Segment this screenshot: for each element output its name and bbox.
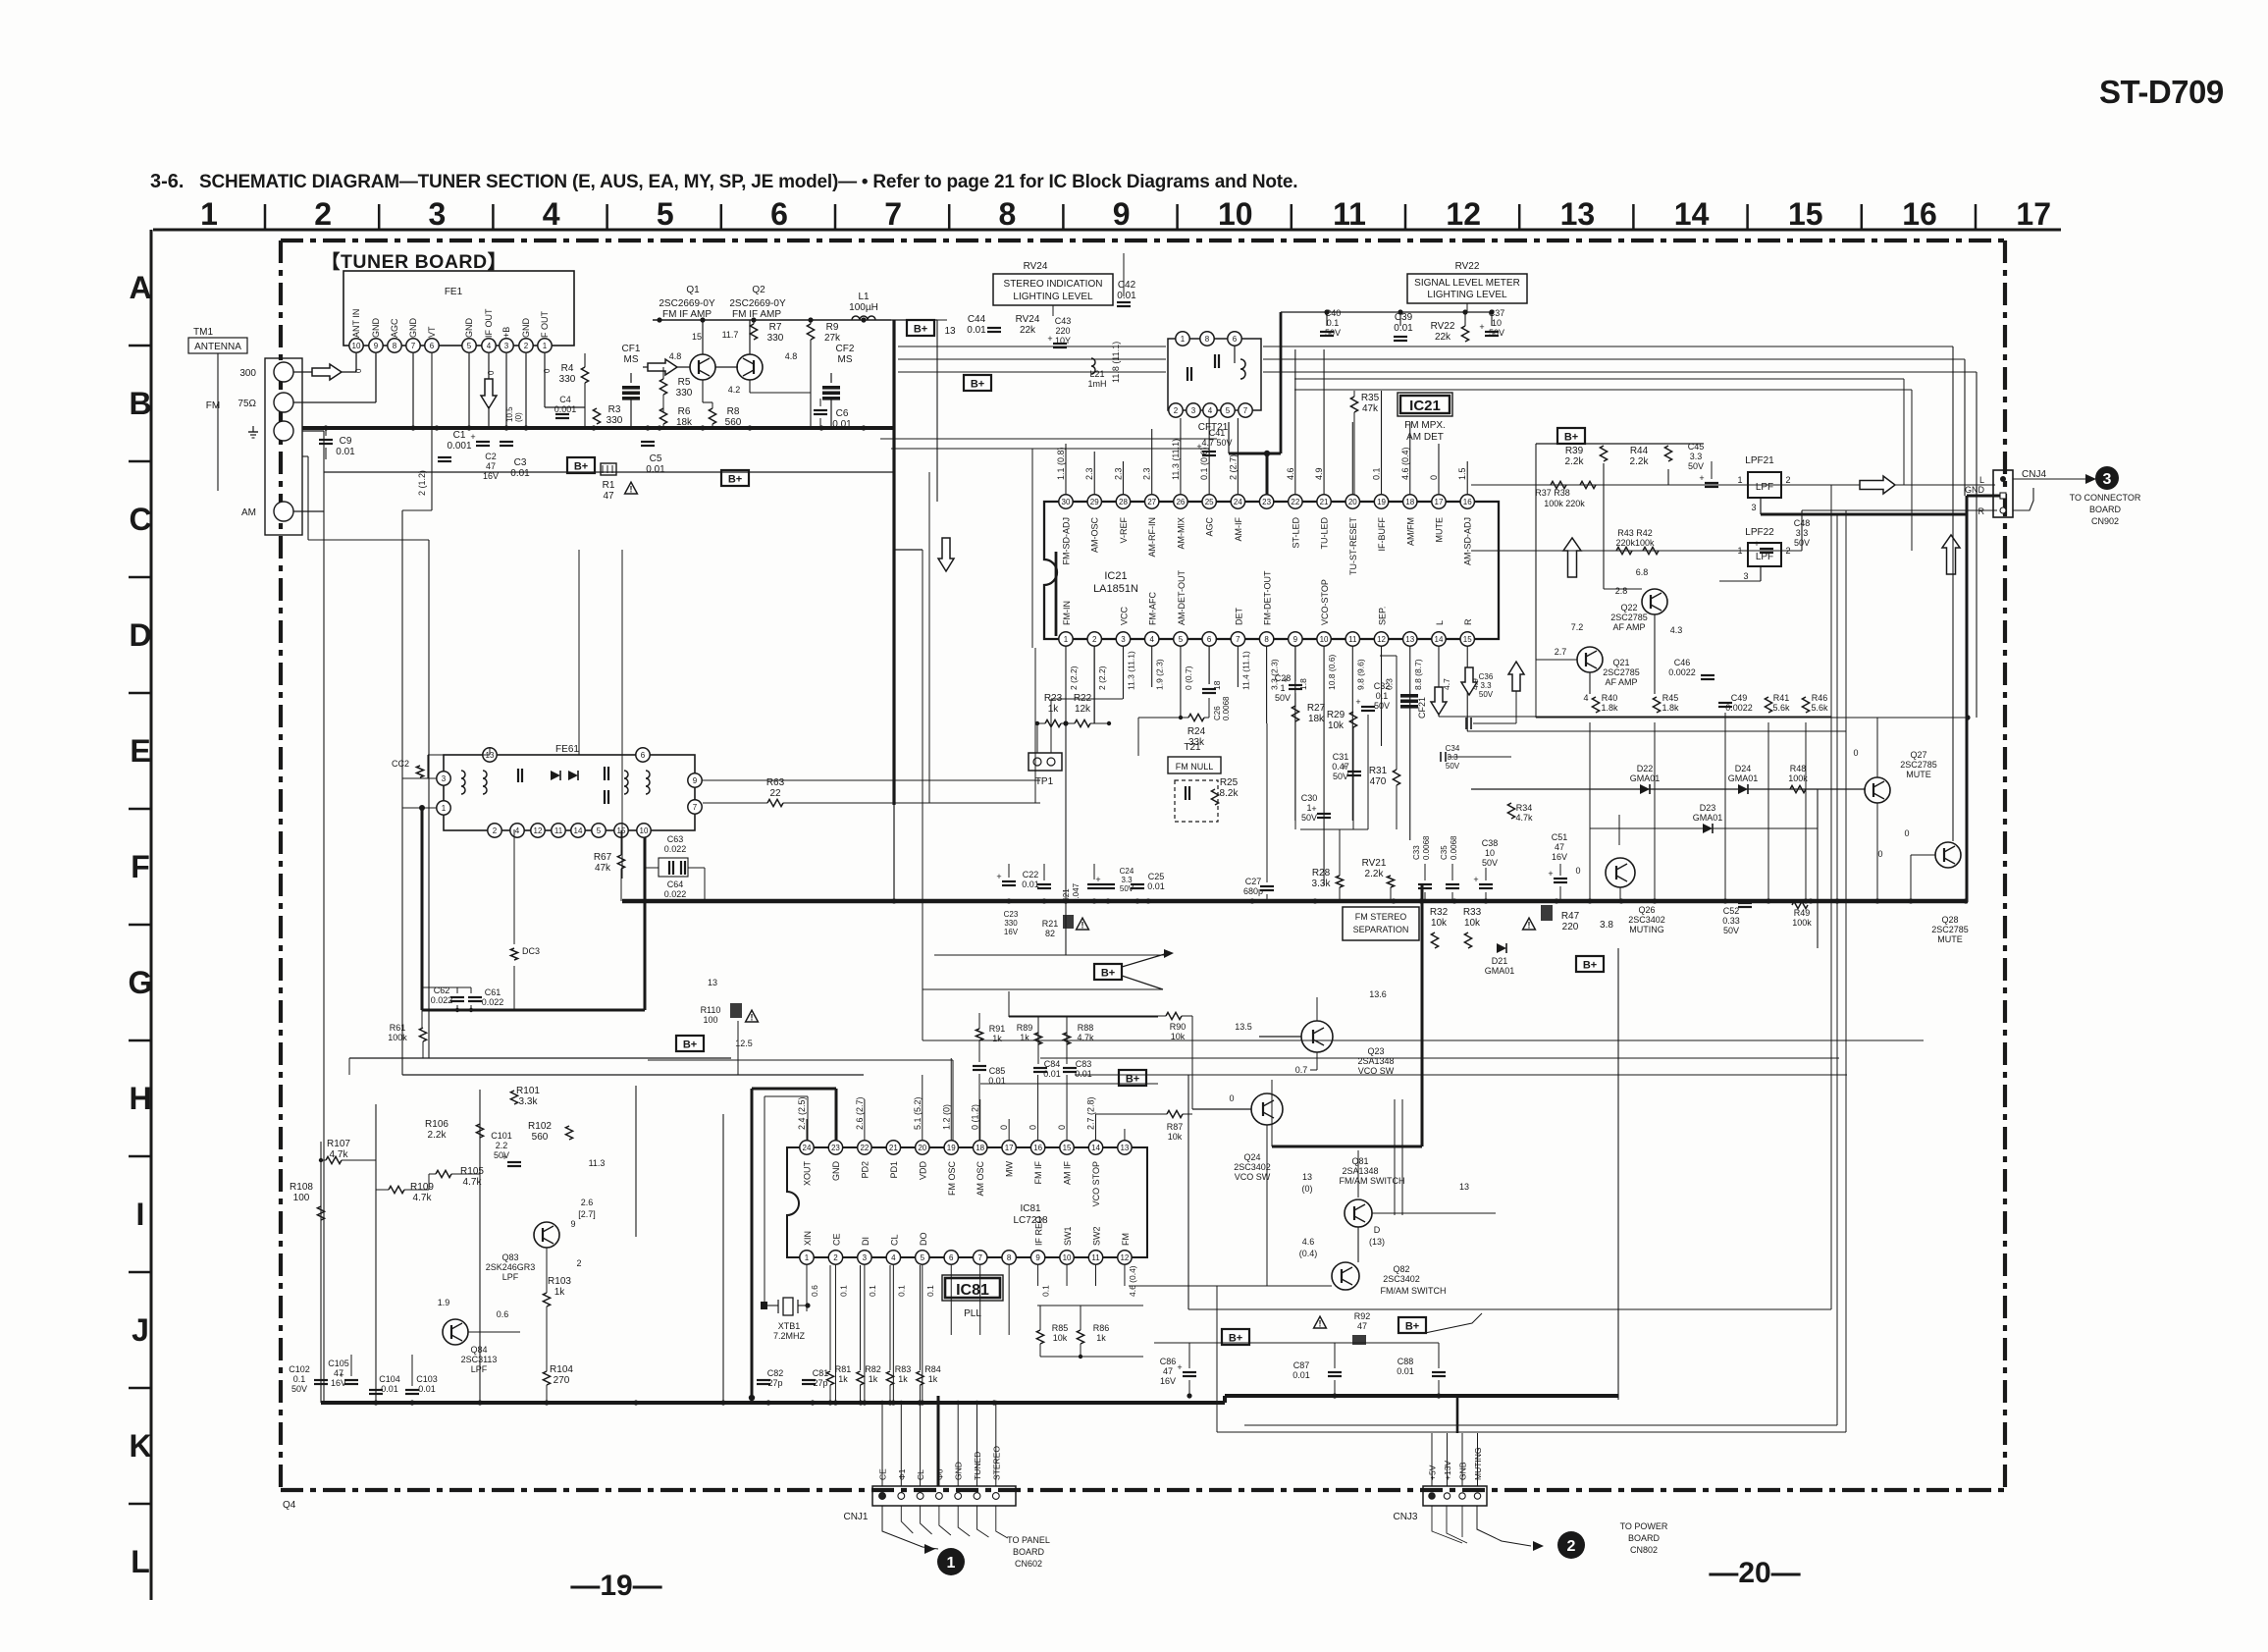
svg-text:4: 4 <box>543 196 560 232</box>
svg-text:D23: D23 <box>1700 803 1716 813</box>
svg-text:1k: 1k <box>1048 704 1060 715</box>
svg-text:8.8 (8.7): 8.8 (8.7) <box>1413 659 1423 690</box>
svg-text:28: 28 <box>1119 498 1128 506</box>
svg-text:R: R <box>1978 506 1985 516</box>
svg-text:6: 6 <box>641 751 646 760</box>
svg-text:TO PANEL: TO PANEL <box>1007 1535 1050 1545</box>
svg-text:82: 82 <box>1045 929 1055 938</box>
svg-text:2SK246GR3: 2SK246GR3 <box>486 1262 536 1272</box>
svg-text:K: K <box>129 1428 151 1464</box>
svg-text:2SC2669-0Y: 2SC2669-0Y <box>659 298 715 309</box>
svg-text:16V: 16V <box>1552 852 1567 862</box>
svg-text:C9: C9 <box>340 436 352 447</box>
svg-text:17: 17 <box>1005 1144 1014 1152</box>
svg-text:+: + <box>470 432 475 442</box>
svg-text:AM-RF-IN: AM-RF-IN <box>1147 517 1157 558</box>
svg-text:2: 2 <box>833 1253 838 1262</box>
svg-text:R9: R9 <box>826 322 839 333</box>
svg-text:AM-MIX: AM-MIX <box>1176 517 1186 550</box>
svg-text:TU-LED: TU-LED <box>1320 517 1330 550</box>
svg-text:G: G <box>129 965 153 1000</box>
svg-text:B+: B+ <box>914 324 927 336</box>
svg-text:25: 25 <box>1205 498 1214 506</box>
svg-text:0.6: 0.6 <box>810 1285 819 1297</box>
svg-text:7.2MHZ: 7.2MHZ <box>773 1331 806 1341</box>
svg-text:2: 2 <box>1092 635 1097 644</box>
svg-text:LPF21: LPF21 <box>1745 455 1774 466</box>
svg-text:T21: T21 <box>1184 742 1201 753</box>
svg-text:1k: 1k <box>869 1374 878 1384</box>
svg-text:0.1: 0.1 <box>868 1285 877 1297</box>
svg-text:R7: R7 <box>769 322 782 333</box>
svg-text:270: 270 <box>554 1375 570 1386</box>
svg-text:27: 27 <box>1147 498 1156 506</box>
svg-text:4.7k: 4.7k <box>413 1193 433 1203</box>
svg-text:R46: R46 <box>1812 693 1828 703</box>
svg-text:+: + <box>1342 762 1346 772</box>
svg-text:R105: R105 <box>460 1166 484 1177</box>
svg-text:3.3: 3.3 <box>1121 876 1133 884</box>
svg-text:17: 17 <box>2016 196 2051 232</box>
svg-text:TU-ST-RESET: TU-ST-RESET <box>1348 517 1358 576</box>
svg-text:RV22: RV22 <box>1455 261 1480 272</box>
svg-text:C31: C31 <box>1333 752 1349 762</box>
svg-text:16: 16 <box>1033 1144 1042 1152</box>
svg-text:100k: 100k <box>1792 918 1812 928</box>
svg-text:Q24: Q24 <box>1243 1152 1260 1162</box>
svg-text:16V: 16V <box>1160 1376 1176 1386</box>
svg-text:10: 10 <box>1218 196 1253 232</box>
svg-text:11.7: 11.7 <box>722 330 739 340</box>
svg-text:LIGHTING LEVEL: LIGHTING LEVEL <box>1427 290 1507 300</box>
svg-text:0.01: 0.01 <box>1292 1370 1310 1380</box>
svg-text:C104: C104 <box>379 1374 400 1384</box>
svg-text:1mH: 1mH <box>1087 379 1106 389</box>
svg-text:VDD: VDD <box>918 1161 927 1181</box>
svg-text:R63: R63 <box>766 777 785 788</box>
svg-text:LPF: LPF <box>471 1364 488 1374</box>
svg-text:2: 2 <box>1785 475 1790 485</box>
svg-text:2.2k: 2.2k <box>428 1130 448 1141</box>
svg-text:0.022: 0.022 <box>431 995 453 1005</box>
svg-text:GND: GND <box>1965 485 1985 495</box>
svg-text:1k: 1k <box>838 1374 848 1384</box>
svg-text:6: 6 <box>430 342 435 350</box>
svg-text:0.01: 0.01 <box>1117 291 1136 301</box>
svg-text:D21: D21 <box>1492 956 1508 966</box>
svg-text:J: J <box>132 1312 149 1348</box>
svg-text:2: 2 <box>1174 406 1179 415</box>
svg-text:4.3: 4.3 <box>1670 625 1683 635</box>
svg-text:C103: C103 <box>416 1374 438 1384</box>
svg-text:0.01: 0.01 <box>646 464 665 475</box>
svg-text:16: 16 <box>1463 498 1472 506</box>
svg-text:3-6.: 3-6. <box>150 171 184 192</box>
svg-text:8: 8 <box>1007 1253 1012 1262</box>
svg-text:2.6: 2.6 <box>581 1198 594 1207</box>
svg-text:10: 10 <box>640 826 649 835</box>
svg-text:SCHEMATIC DIAGRAM—TUNER SECTIO: SCHEMATIC DIAGRAM—TUNER SECTION (E, AUS,… <box>199 172 1297 192</box>
svg-text:GMA01: GMA01 <box>1693 813 1723 823</box>
svg-text:18k: 18k <box>676 417 693 428</box>
svg-text:C52: C52 <box>1723 906 1740 916</box>
svg-text:R47: R47 <box>1561 911 1580 922</box>
svg-text:FM-SD-ADJ: FM-SD-ADJ <box>1062 517 1072 565</box>
svg-text:2.2k: 2.2k <box>1565 456 1585 467</box>
svg-text:R61: R61 <box>390 1023 406 1033</box>
svg-text:H: H <box>129 1081 151 1116</box>
svg-text:0 (1.2): 0 (1.2) <box>971 1104 980 1130</box>
svg-text:560: 560 <box>532 1132 549 1143</box>
svg-text:VCC: VCC <box>1119 606 1129 625</box>
svg-text:0.33: 0.33 <box>1722 916 1740 926</box>
svg-text:AF AMP: AF AMP <box>1612 622 1645 632</box>
svg-text:4: 4 <box>891 1253 896 1262</box>
svg-text:2SC2785: 2SC2785 <box>1900 760 1937 770</box>
svg-text:5: 5 <box>597 826 602 835</box>
svg-text:SIGNAL LEVEL METER: SIGNAL LEVEL METER <box>1414 278 1520 289</box>
svg-text:2: 2 <box>1567 1538 1576 1555</box>
svg-text:C5: C5 <box>650 453 662 464</box>
svg-text:0.022: 0.022 <box>664 889 687 899</box>
svg-text:FM MPX.: FM MPX. <box>1404 420 1446 431</box>
svg-text:LPF: LPF <box>1756 482 1773 493</box>
svg-text:B+: B+ <box>1101 968 1115 980</box>
svg-text:D: D <box>1374 1225 1381 1235</box>
svg-text:0.01: 0.01 <box>1394 323 1413 334</box>
svg-text:2.6 (2.7): 2.6 (2.7) <box>855 1096 865 1130</box>
svg-text:PD2: PD2 <box>860 1161 870 1179</box>
svg-text:MUTE: MUTE <box>1434 517 1444 543</box>
svg-text:R88: R88 <box>1078 1023 1094 1033</box>
svg-text:0.6: 0.6 <box>497 1309 509 1319</box>
svg-text:2SC3402: 2SC3402 <box>1383 1274 1420 1284</box>
svg-text:R107: R107 <box>327 1139 350 1149</box>
svg-text:11: 11 <box>554 826 563 835</box>
svg-text:IC81: IC81 <box>1020 1203 1041 1214</box>
svg-text:13: 13 <box>1560 196 1596 232</box>
svg-text:C41: C41 <box>1209 428 1226 438</box>
svg-text:AM/FM: AM/FM <box>1405 517 1415 546</box>
svg-text:E: E <box>130 733 150 769</box>
svg-text:+: + <box>1196 442 1201 452</box>
svg-text:CF2: CF2 <box>836 344 855 354</box>
svg-text:XOUT: XOUT <box>803 1161 813 1187</box>
svg-text:2SC2785: 2SC2785 <box>1603 667 1640 677</box>
svg-text:10k: 10k <box>1464 918 1481 929</box>
svg-text:C43: C43 <box>1055 316 1072 326</box>
svg-text:0: 0 <box>1229 1093 1234 1103</box>
svg-text:!: ! <box>630 485 633 495</box>
svg-text:PD1: PD1 <box>889 1161 899 1179</box>
svg-text:ANT IN: ANT IN <box>351 309 361 338</box>
svg-text:6: 6 <box>770 196 788 232</box>
svg-text:BOARD: BOARD <box>1013 1547 1045 1557</box>
svg-text:DC3: DC3 <box>522 946 540 956</box>
svg-text:【TUNER BOARD】: 【TUNER BOARD】 <box>321 250 507 273</box>
svg-text:+: + <box>1479 322 1484 332</box>
svg-text:Q22: Q22 <box>1620 603 1637 613</box>
svg-text:0.022: 0.022 <box>482 997 504 1007</box>
svg-text:C24: C24 <box>1120 867 1134 876</box>
svg-text:C2: C2 <box>485 452 497 461</box>
svg-text:2SC2785: 2SC2785 <box>1610 613 1648 622</box>
svg-text:R21: R21 <box>1042 919 1059 929</box>
svg-text:AGC: AGC <box>390 318 399 338</box>
svg-text:12: 12 <box>1120 1253 1129 1262</box>
svg-text:0.7: 0.7 <box>1295 1065 1308 1075</box>
svg-text:10: 10 <box>1320 635 1329 644</box>
svg-text:1: 1 <box>543 342 548 350</box>
svg-text:7: 7 <box>977 1253 982 1262</box>
svg-text:BOARD: BOARD <box>2089 505 2122 514</box>
svg-text:5.1 (5.2): 5.1 (5.2) <box>913 1096 923 1130</box>
svg-text:(0.4): (0.4) <box>1299 1249 1318 1258</box>
svg-text:VT: VT <box>427 326 437 338</box>
svg-text:GND: GND <box>464 318 474 339</box>
svg-text:22: 22 <box>1291 498 1299 506</box>
svg-text:13: 13 <box>1302 1172 1312 1182</box>
svg-text:2 (2.7): 2 (2.7) <box>1228 454 1238 480</box>
svg-text:18: 18 <box>976 1144 984 1152</box>
svg-text:+: + <box>1283 675 1288 685</box>
svg-text:R29: R29 <box>1327 710 1345 720</box>
svg-text:4.6 (0.4): 4.6 (0.4) <box>1400 447 1410 480</box>
svg-text:Q82: Q82 <box>1393 1264 1409 1274</box>
svg-text:GMA01: GMA01 <box>1728 773 1759 783</box>
svg-text:!: ! <box>751 1013 754 1023</box>
svg-text:47: 47 <box>1357 1321 1367 1331</box>
svg-text:R90: R90 <box>1170 1022 1187 1032</box>
svg-text:3: 3 <box>2103 471 2112 488</box>
svg-text:22k: 22k <box>1435 332 1451 343</box>
svg-text:C61: C61 <box>485 987 501 997</box>
svg-text:MS: MS <box>624 354 639 365</box>
svg-text:+: + <box>1473 875 1478 884</box>
svg-text:2.3: 2.3 <box>1084 467 1094 480</box>
svg-text:4.7k: 4.7k <box>1515 813 1533 823</box>
svg-text:TM1: TM1 <box>193 327 213 338</box>
svg-text:220: 220 <box>1055 326 1070 336</box>
svg-text:LIGHTING LEVEL: LIGHTING LEVEL <box>1013 292 1093 302</box>
svg-text:TO POWER: TO POWER <box>1620 1521 1668 1531</box>
svg-text:C22: C22 <box>1023 870 1039 879</box>
svg-text:2 (2.2): 2 (2.2) <box>1069 666 1079 690</box>
svg-text:47: 47 <box>603 491 614 502</box>
svg-text:L: L <box>1979 475 1984 485</box>
svg-text:1: 1 <box>947 1555 956 1572</box>
svg-text:4.6 (0.4): 4.6 (0.4) <box>1128 1265 1137 1297</box>
svg-text:2SC3402: 2SC3402 <box>1628 915 1665 925</box>
svg-text:0.01: 0.01 <box>1147 881 1165 891</box>
svg-text:50V: 50V <box>291 1384 307 1394</box>
svg-text:8: 8 <box>1205 335 1210 344</box>
svg-text:560: 560 <box>725 417 742 428</box>
svg-text:1.9 (2.3): 1.9 (2.3) <box>1155 659 1165 690</box>
svg-text:0: 0 <box>543 368 552 373</box>
svg-text:1k: 1k <box>554 1287 566 1298</box>
svg-text:10: 10 <box>1063 1253 1072 1262</box>
svg-text:11.3: 11.3 <box>589 1158 606 1168</box>
svg-text:100: 100 <box>293 1193 310 1203</box>
svg-text:R5: R5 <box>678 377 691 388</box>
svg-text:C105: C105 <box>328 1359 349 1368</box>
svg-text:0: 0 <box>1575 866 1580 876</box>
svg-text:LPF: LPF <box>502 1272 519 1282</box>
svg-text:4.6: 4.6 <box>1302 1237 1315 1247</box>
svg-text:TO CONNECTOR: TO CONNECTOR <box>2070 493 2141 503</box>
svg-text:AM IF: AM IF <box>1063 1160 1073 1185</box>
svg-text:50V: 50V <box>1374 701 1390 711</box>
svg-text:C88: C88 <box>1398 1357 1414 1366</box>
svg-text:3.3: 3.3 <box>1690 452 1703 461</box>
svg-text:15: 15 <box>1463 635 1472 644</box>
svg-text:ANTENNA: ANTENNA <box>194 342 241 352</box>
svg-text:13.5: 13.5 <box>1235 1022 1252 1032</box>
svg-text:AM: AM <box>241 507 256 518</box>
svg-text:(13): (13) <box>1369 1237 1385 1247</box>
svg-text:50V: 50V <box>1333 772 1348 781</box>
svg-text:0.1: 0.1 <box>1376 691 1389 701</box>
svg-text:C21: C21 <box>1062 888 1071 903</box>
svg-text:IC21: IC21 <box>1409 398 1441 414</box>
svg-text:D22: D22 <box>1637 764 1654 773</box>
svg-text:+: + <box>1699 473 1704 483</box>
svg-text:B+: B+ <box>971 379 984 391</box>
svg-text:R39: R39 <box>1565 446 1584 456</box>
svg-text:GMA01: GMA01 <box>1485 966 1515 976</box>
svg-text:Q27: Q27 <box>1910 750 1926 760</box>
svg-text:75Ω: 75Ω <box>237 399 256 409</box>
svg-text:20: 20 <box>918 1144 926 1152</box>
svg-text:3: 3 <box>1191 406 1196 415</box>
svg-text:330: 330 <box>607 415 623 426</box>
svg-text:Q84: Q84 <box>470 1345 487 1355</box>
svg-text:AF AMP: AF AMP <box>1605 677 1637 687</box>
svg-text:50V: 50V <box>1275 693 1291 703</box>
svg-text:B: B <box>129 386 151 421</box>
svg-text:R101: R101 <box>516 1086 540 1096</box>
svg-text:15: 15 <box>1788 196 1823 232</box>
svg-text:R41: R41 <box>1773 693 1790 703</box>
svg-text:26: 26 <box>1176 498 1185 506</box>
svg-text:0.1: 0.1 <box>293 1374 306 1384</box>
svg-text:CN902: CN902 <box>2091 516 2119 526</box>
svg-text:2.2: 2.2 <box>496 1141 508 1150</box>
svg-text:CF1: CF1 <box>622 344 641 354</box>
svg-text:R1: R1 <box>603 480 615 491</box>
svg-text:0.01: 0.01 <box>381 1384 398 1394</box>
svg-text:18: 18 <box>1405 498 1414 506</box>
svg-text:R40: R40 <box>1602 693 1618 703</box>
svg-text:15: 15 <box>692 332 702 342</box>
svg-text:Q21: Q21 <box>1612 658 1629 667</box>
svg-text:4: 4 <box>487 342 492 350</box>
svg-text:R109: R109 <box>410 1182 434 1193</box>
svg-text:330: 330 <box>767 333 784 344</box>
svg-text:0.01: 0.01 <box>418 1384 436 1394</box>
svg-text:IF REQ: IF REQ <box>1034 1216 1044 1246</box>
svg-text:50V: 50V <box>1446 762 1460 771</box>
svg-text:I: I <box>136 1197 145 1232</box>
svg-text:5: 5 <box>921 1253 925 1262</box>
svg-text:RV24: RV24 <box>1016 314 1040 325</box>
svg-text:C6: C6 <box>836 408 849 419</box>
svg-text:R4: R4 <box>561 363 574 374</box>
svg-text:R81: R81 <box>835 1364 852 1374</box>
svg-text:17: 17 <box>1435 498 1444 506</box>
svg-text:0: 0 <box>354 368 363 373</box>
svg-text:0: 0 <box>487 370 496 375</box>
svg-text:Q28: Q28 <box>1941 915 1958 925</box>
svg-text:1: 1 <box>1737 475 1742 485</box>
svg-text:10: 10 <box>1485 848 1495 858</box>
svg-text:10k: 10k <box>1053 1333 1068 1343</box>
svg-text:R43 R42: R43 R42 <box>1617 528 1653 538</box>
svg-text:R44: R44 <box>1630 446 1649 456</box>
svg-text:13: 13 <box>1405 635 1414 644</box>
svg-text:B+: B+ <box>1583 960 1597 972</box>
svg-text:C4: C4 <box>559 395 571 404</box>
svg-text:R: R <box>1463 618 1473 625</box>
svg-text:R32: R32 <box>1430 907 1449 918</box>
svg-text:5: 5 <box>1179 635 1184 644</box>
svg-text:2SC3113: 2SC3113 <box>461 1355 498 1364</box>
svg-text:10: 10 <box>1492 318 1502 328</box>
svg-text:5: 5 <box>467 342 472 350</box>
svg-text:11.8 (11.1): 11.8 (11.1) <box>1111 342 1121 383</box>
svg-text:L1: L1 <box>858 292 870 302</box>
svg-text:D24: D24 <box>1735 764 1752 773</box>
svg-text:C38: C38 <box>1482 838 1499 848</box>
svg-text:1.5: 1.5 <box>1457 467 1467 480</box>
svg-text:9: 9 <box>1035 1253 1040 1262</box>
svg-text:9: 9 <box>693 776 698 785</box>
svg-text:27k: 27k <box>824 333 841 344</box>
svg-text:C48: C48 <box>1794 518 1811 528</box>
svg-text:C44: C44 <box>968 314 986 325</box>
svg-text:F OUT: F OUT <box>540 311 550 338</box>
svg-text:FM STEREO: FM STEREO <box>1355 912 1407 922</box>
svg-text:MUTE: MUTE <box>1937 934 1963 944</box>
svg-text:22k: 22k <box>1020 325 1036 336</box>
svg-text:1: 1 <box>200 196 218 232</box>
svg-text:3: 3 <box>1121 635 1126 644</box>
svg-text:2.2k: 2.2k <box>1365 869 1385 879</box>
svg-text:+: + <box>996 872 1001 881</box>
svg-text:R49: R49 <box>1794 908 1811 918</box>
svg-text:R89: R89 <box>1017 1023 1033 1033</box>
svg-text:R33: R33 <box>1463 907 1482 918</box>
svg-text:2: 2 <box>1785 546 1790 556</box>
svg-text:12: 12 <box>1446 196 1481 232</box>
svg-text:C45: C45 <box>1688 442 1705 452</box>
svg-text:C82: C82 <box>767 1368 784 1378</box>
svg-text:2SC2669-0Y: 2SC2669-0Y <box>729 298 786 309</box>
svg-text:C51: C51 <box>1552 832 1568 842</box>
svg-text:R91: R91 <box>989 1024 1006 1034</box>
svg-text:12: 12 <box>534 826 543 835</box>
svg-text:0.01: 0.01 <box>510 468 530 479</box>
svg-text:9: 9 <box>570 1219 575 1229</box>
svg-text:9: 9 <box>1293 635 1298 644</box>
svg-text:LA1851N: LA1851N <box>1093 583 1138 595</box>
svg-text:IC21: IC21 <box>1104 570 1127 582</box>
svg-text:C23: C23 <box>1004 910 1019 919</box>
svg-text:14: 14 <box>1674 196 1710 232</box>
svg-text:2.3: 2.3 <box>1113 467 1123 480</box>
svg-text:C39: C39 <box>1395 312 1413 323</box>
